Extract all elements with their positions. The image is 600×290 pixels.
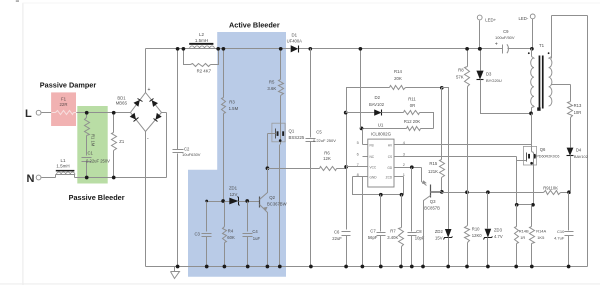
node VCC junction: [344, 165, 348, 169]
svg-text:N: N: [27, 173, 35, 185]
svg-text:100uF/50V: 100uF/50V: [495, 35, 515, 40]
passive damper highlight box: [51, 92, 76, 126]
svg-text:+: +: [495, 42, 498, 48]
node C5 gnd: [309, 265, 313, 269]
svg-text:L: L: [25, 108, 32, 120]
wire Q1 gate down: [267, 134, 269, 169]
mosfet Q1 BSS225: [272, 123, 285, 142]
node R14A gnd: [530, 265, 534, 269]
transformer polarity marks: [528, 52, 530, 54]
terminal LED+: [477, 15, 482, 20]
svg-text:12K0: 12K0: [472, 233, 482, 238]
diode D3 BYG20U: [480, 49, 482, 71]
wire D3 node to Q6 drain: [531, 114, 533, 147]
node R4 gnd: [223, 265, 227, 269]
node GD junction: [410, 165, 414, 169]
node ZD1 anode R4: [221, 199, 225, 203]
svg-text:GND: GND: [370, 176, 378, 180]
wire CS drop: [516, 157, 518, 205]
svg-text:Q3: Q3: [430, 199, 436, 204]
node T1 primary top: [530, 47, 534, 51]
resistor R13 10R: [568, 102, 573, 118]
wire bottom rail: [146, 266, 588, 268]
passive bleeder highlight box: [77, 106, 107, 184]
varistor Z1: [113, 113, 115, 133]
svg-text:C2: C2: [184, 146, 190, 151]
capacitor C8 10pF: [411, 168, 413, 232]
node R10 gnd: [465, 265, 469, 269]
node R9 left R8R10: [465, 190, 469, 194]
svg-text:3.40K: 3.40K: [387, 235, 398, 240]
svg-text:ZD1: ZD1: [229, 185, 238, 190]
svg-text:Passive Damper: Passive Damper: [40, 80, 97, 89]
svg-text:BYG20U: BYG20U: [486, 78, 502, 83]
capacitor C1: [82, 157, 92, 159]
pin 8 GND: [353, 176, 368, 178]
wire top rail: [146, 48, 291, 50]
resistor R11 0R: [404, 111, 420, 115]
svg-text:4.7uF: 4.7uF: [554, 235, 565, 240]
svg-text:R14: R14: [394, 69, 402, 74]
terminal N: [36, 175, 41, 180]
svg-text:8: 8: [357, 172, 359, 177]
svg-text:R11: R11: [408, 96, 416, 101]
resistor R6: [268, 168, 320, 170]
node C8 gnd: [410, 265, 414, 269]
node Q2 emitter gnd: [266, 265, 270, 269]
svg-text:Q1: Q1: [289, 128, 295, 133]
svg-text:UF400A: UF400A: [287, 38, 303, 43]
svg-text:BAV102: BAV102: [574, 154, 588, 159]
wire GND net: [353, 177, 404, 195]
bridge diode lower-left: [130, 113, 136, 120]
svg-text:C3: C3: [195, 231, 201, 236]
mosfet Q6 IPD60R2K0C6: [523, 146, 536, 165]
node pin8 gnd rail: [361, 265, 365, 269]
inductor L2: [190, 46, 215, 49]
node sense right: [531, 203, 535, 207]
svg-text:57K: 57K: [456, 75, 464, 80]
svg-text:R8: R8: [458, 68, 464, 73]
svg-text:CS: CS: [388, 155, 392, 159]
node ZD1 left end: [205, 200, 208, 203]
svg-text:15V: 15V: [435, 236, 443, 241]
svg-text:1.5mH: 1.5mH: [195, 38, 208, 43]
terminal LED-: [530, 14, 535, 19]
ground symbol: [174, 267, 176, 272]
svg-text:F1: F1: [61, 97, 67, 102]
svg-text:1uF: 1uF: [253, 236, 261, 241]
svg-text:C1: C1: [88, 151, 94, 156]
svg-text:+: +: [147, 87, 150, 93]
wire source sense line: [517, 204, 534, 206]
svg-text:GD: GD: [387, 166, 392, 170]
svg-text:1.5M: 1.5M: [229, 106, 239, 111]
svg-text:ZCD: ZCD: [386, 176, 393, 180]
bridge diode upper-left: [134, 100, 140, 107]
wire N line: [42, 177, 56, 179]
svg-text:60K: 60K: [227, 235, 235, 240]
node rail x361: [359, 47, 363, 51]
svg-text:MB6S: MB6S: [116, 101, 128, 106]
node N-bleeder junction: [85, 176, 89, 180]
capacitor C7: [380, 195, 382, 232]
terminal L: [36, 110, 41, 115]
svg-text:R14A: R14A: [536, 228, 546, 233]
node R9 right D4 C10: [567, 190, 571, 194]
svg-text:Q6: Q6: [540, 147, 546, 152]
resistor R2: [184, 49, 191, 65]
node LED+ rail: [478, 47, 482, 51]
node Q3 collector gnd: [421, 265, 425, 269]
svg-text:1K5: 1K5: [537, 235, 545, 240]
svg-text:56pF: 56pF: [368, 235, 378, 240]
capacitor C4: [247, 202, 249, 232]
svg-text:4.7V: 4.7V: [494, 234, 503, 239]
svg-text:1R: 1R: [520, 235, 525, 240]
node R7 top: [400, 193, 404, 197]
node C2 rail: [176, 47, 180, 51]
node Z1 bottom: [112, 176, 116, 180]
svg-text:C9: C9: [503, 29, 509, 34]
svg-text:LED-: LED-: [519, 16, 529, 21]
svg-text:C10: C10: [557, 229, 565, 234]
svg-text:U1: U1: [378, 122, 384, 127]
capacitor C5: [310, 49, 312, 138]
fuse F1: [56, 111, 74, 115]
capacitor C6: [346, 167, 348, 230]
node T1 primary bottom D3: [529, 112, 533, 116]
resistor R9 110K: [544, 191, 561, 195]
wire Q1 source to gnd: [279, 145, 281, 267]
svg-text:R10: R10: [472, 226, 480, 231]
svg-text:BAV102: BAV102: [369, 102, 385, 107]
svg-text:Z1: Z1: [119, 139, 125, 144]
node R15 bottom: [440, 190, 444, 194]
svg-text:R1 1M: R1 1M: [91, 134, 96, 147]
capacitor C2: [177, 49, 179, 150]
svg-text:BD1: BD1: [117, 95, 126, 100]
svg-text:R5: R5: [269, 79, 275, 84]
svg-text:12K: 12K: [323, 156, 331, 161]
svg-text:R9110K: R9110K: [543, 186, 558, 191]
svg-text:L2: L2: [199, 32, 205, 37]
wire Q6 source down: [533, 168, 535, 205]
svg-text:R15: R15: [429, 161, 437, 166]
svg-text:0.22uF 250V: 0.22uF 250V: [86, 158, 110, 163]
transformer core: [539, 56, 541, 109]
svg-text:12V: 12V: [230, 192, 238, 197]
bridge diode upper-right: [152, 100, 158, 107]
resistor R3: [223, 49, 225, 98]
svg-text:D2: D2: [375, 95, 381, 100]
fuse F1 zigzag over highlight: [56, 111, 74, 115]
resistor R8 57K: [467, 49, 469, 67]
capacitor C9 100uF/50V: [502, 45, 504, 54]
zener ZD1 12V: [207, 201, 230, 203]
svg-text:R14B: R14B: [519, 228, 529, 233]
resistor R14 20K: [347, 88, 390, 113]
resistor R12 20K: [362, 128, 407, 130]
resistor R15 121K: [441, 88, 443, 160]
diode D4 BAV102: [567, 148, 574, 156]
node L2 right: [216, 47, 220, 51]
svg-text:IPD60R2K0C6: IPD60R2K0C6: [535, 155, 559, 159]
svg-text:1.5mH: 1.5mH: [56, 163, 69, 168]
node ZD3 gnd: [486, 265, 490, 269]
svg-text:C5: C5: [316, 129, 322, 134]
bridge diode lower-right: [156, 113, 162, 120]
svg-text:R4: R4: [228, 229, 234, 234]
svg-text:ICL8002G: ICL8002G: [371, 132, 392, 137]
diode D1 UF400A: [291, 45, 299, 52]
svg-text:LED+: LED+: [485, 17, 496, 22]
node gate-collector junction: [266, 166, 270, 170]
resistor R7: [401, 195, 403, 228]
node L-damper junction: [85, 111, 89, 115]
node D1 cathode junction: [308, 47, 312, 51]
transistor Q3 BC857B: [422, 168, 427, 186]
svg-text:121K: 121K: [428, 169, 438, 174]
svg-text:22R: 22R: [60, 102, 68, 107]
wire pin8 to gnd rail: [362, 177, 364, 267]
zener ZD3 4.7V: [487, 193, 489, 229]
svg-text:ZD3: ZD3: [494, 227, 503, 232]
node R3 rail: [222, 47, 226, 51]
svg-text:R12 20K: R12 20K: [404, 119, 421, 124]
svg-text:BSS225: BSS225: [289, 135, 305, 140]
wire bridge - to bottom rail: [145, 132, 147, 267]
node sense left: [515, 203, 519, 207]
transformer secondary winding: [549, 58, 552, 106]
transistor Q2 BC367BW: [259, 197, 261, 208]
pin 3 CS: [395, 156, 517, 158]
node ZD2 gnd: [446, 265, 450, 269]
svg-text:10R: 10R: [574, 110, 582, 115]
pin 2 GD: [395, 167, 422, 169]
svg-text:Active Bleeder: Active Bleeder: [229, 20, 280, 29]
resistor R14B 1R: [516, 205, 518, 227]
svg-text:BC857B: BC857B: [424, 206, 440, 211]
pin 7 VCC: [347, 166, 368, 168]
svg-text:R13: R13: [574, 103, 582, 108]
node R7 gnd: [399, 265, 403, 269]
node C3 gnd: [205, 265, 209, 269]
node D3 rail: [478, 47, 482, 51]
node R12 left pin5: [360, 127, 364, 131]
node R5 rail: [279, 47, 283, 51]
svg-text:R6: R6: [324, 150, 330, 155]
resistor R14A 1K5: [531, 205, 533, 227]
pin 6 NC: [363, 156, 368, 158]
svg-text:NC: NC: [370, 155, 375, 159]
pin 4 HV: [395, 144, 532, 146]
node Z1 top: [112, 111, 116, 115]
svg-text:ZD2: ZD2: [435, 229, 444, 234]
svg-text:6: 6: [357, 152, 359, 157]
svg-text:T1: T1: [539, 43, 545, 48]
capacitor C3: [206, 202, 208, 232]
svg-text:R2 4K7: R2 4K7: [197, 69, 212, 74]
svg-text:C7: C7: [370, 228, 376, 233]
node L2 left: [182, 47, 186, 51]
capacitor C10 4.7uF: [568, 193, 570, 231]
svg-text:1: 1: [403, 172, 405, 177]
wire N to bridge right vertex: [166, 113, 168, 178]
wire right edge loop: [551, 16, 553, 59]
node R8 rail: [465, 47, 469, 51]
wire secondary top to loop: [549, 57, 552, 59]
svg-text:5: 5: [357, 140, 359, 145]
wire L line: [42, 112, 131, 114]
node ZD3 top: [486, 190, 490, 194]
node ZD1 cathode C4: [245, 199, 249, 203]
node Q1 source gnd: [278, 265, 282, 269]
svg-text:7: 7: [357, 162, 359, 167]
svg-text:Q2: Q2: [269, 195, 275, 200]
svg-text:C4: C4: [252, 229, 258, 234]
svg-text:D4: D4: [576, 147, 582, 152]
wire sense line y192: [431, 191, 442, 193]
svg-text:R7: R7: [390, 228, 396, 233]
node D2 anode: [344, 111, 348, 115]
resistor R5: [280, 49, 282, 80]
node C7 top: [379, 193, 383, 197]
wire VCC column: [346, 88, 348, 167]
svg-text:R3: R3: [229, 100, 235, 105]
node C4 gnd: [246, 265, 250, 269]
svg-text:VCC: VCC: [370, 166, 377, 170]
svg-text:BC367BW: BC367BW: [267, 201, 287, 206]
node R14B gnd: [514, 265, 518, 269]
svg-text:D1: D1: [292, 32, 298, 37]
svg-text:22uF: 22uF: [332, 236, 342, 241]
bridge rectifier BD1 diamond: [131, 93, 162, 132]
svg-text:0.22uF 250V: 0.22uF 250V: [313, 138, 336, 143]
wire bridge + to rail: [145, 49, 147, 93]
node C10 gnd: [567, 265, 571, 269]
node C2 gnd: [176, 265, 180, 269]
resistor R10: [467, 193, 469, 226]
svg-text:D3: D3: [486, 72, 492, 77]
pin 1 ZCD: [395, 176, 404, 178]
resistor R4: [224, 202, 226, 227]
wire secondary tap to R13: [552, 84, 571, 86]
op-amp U1 ICL8002G box: [368, 139, 394, 187]
svg-text:L1: L1: [60, 158, 66, 163]
svg-text:FB: FB: [370, 144, 374, 148]
resistor R1: [86, 113, 88, 118]
svg-text:10uF630V: 10uF630V: [182, 152, 201, 157]
svg-text:Passive Bleeder: Passive Bleeder: [69, 193, 125, 202]
wire rail to FB node: [360, 49, 362, 129]
svg-text:3: 3: [403, 152, 405, 157]
node C7 gnd: [379, 265, 383, 269]
svg-text:C8: C8: [416, 229, 422, 234]
svg-text:2: 2: [403, 162, 405, 167]
active bleeder highlight box: [188, 32, 286, 277]
zener ZD2 15V column: [442, 88, 449, 230]
svg-text:0R: 0R: [410, 103, 416, 108]
pin 5 FB: [363, 144, 368, 146]
svg-text:C6: C6: [334, 229, 340, 234]
svg-text:3.6K: 3.6K: [267, 86, 276, 91]
diode D2 BAV102: [346, 112, 375, 114]
inductor L1: [56, 174, 75, 176]
node R14 right: [440, 86, 444, 90]
node C6 gnd: [344, 265, 348, 269]
svg-text:20K: 20K: [394, 76, 402, 81]
